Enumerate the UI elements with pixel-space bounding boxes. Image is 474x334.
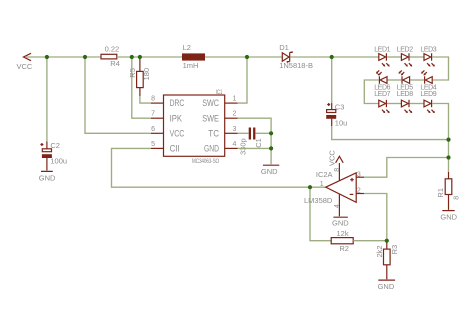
svg-text:5: 5	[151, 141, 155, 148]
pin 2 inverting	[356, 187, 364, 194]
svg-text:7: 7	[151, 111, 155, 118]
svg-text:100u: 100u	[50, 157, 67, 166]
svg-text:2k2: 2k2	[375, 245, 384, 257]
LED LED1	[374, 47, 390, 67]
svg-text:GND: GND	[378, 282, 395, 291]
junction C1 right	[269, 131, 273, 135]
supply symbol VCC (left, arrow)	[17, 53, 33, 71]
wire C3 bottom to sense node	[332, 126, 449, 140]
wire pin1 to rail	[238, 57, 248, 103]
inductor L2	[182, 43, 205, 70]
svg-text:LED1: LED1	[374, 47, 390, 54]
IC IC1 MC34063-SO box	[164, 89, 225, 165]
wire LED8-LED9	[410, 103, 425, 105]
resistor R5	[128, 58, 151, 96]
svg-text:LED7: LED7	[374, 91, 390, 98]
pin 5 CII	[151, 141, 180, 154]
wire R5 to pin8	[140, 96, 151, 103]
svg-text:1mH: 1mH	[183, 61, 199, 70]
LED LED7	[374, 91, 390, 113]
svg-text:8: 8	[151, 96, 155, 103]
svg-text:180: 180	[142, 68, 151, 81]
wire LED2-LED3	[410, 56, 425, 58]
svg-text:D1: D1	[279, 43, 289, 52]
LED LED5	[397, 70, 413, 91]
svg-text:2: 2	[357, 187, 361, 194]
LED LED4	[420, 70, 436, 91]
resistor R2	[331, 229, 353, 253]
svg-text:4: 4	[233, 141, 237, 148]
svg-text:R5: R5	[128, 68, 137, 78]
junction op-amp output node	[308, 185, 312, 189]
diode D1 (schottky)	[279, 43, 313, 70]
svg-text:0.22: 0.22	[105, 45, 120, 54]
wire LED5-LED6	[388, 79, 402, 81]
svg-text:C2: C2	[50, 141, 60, 150]
svg-text:6: 6	[151, 126, 155, 133]
wire D1 to LED1	[291, 56, 379, 58]
resistor R1	[436, 172, 461, 210]
resistor R3	[375, 242, 399, 279]
op-amp IC2A	[304, 170, 356, 205]
wire rail R4 to L2	[117, 56, 182, 58]
wire row1 right corner down to row2	[432, 57, 448, 80]
svg-text:3: 3	[233, 126, 237, 133]
svg-text:R4: R4	[110, 59, 120, 68]
svg-text:LED2: LED2	[397, 47, 413, 54]
junction to C3	[330, 55, 334, 59]
svg-text:1: 1	[320, 181, 324, 188]
wire output down to R2	[310, 187, 331, 241]
svg-text:LM358D: LM358D	[304, 196, 333, 205]
wire row2 left corner down to row3	[364, 80, 379, 104]
junction to pin1 SWC	[245, 55, 249, 59]
wire pin7 branch	[132, 57, 151, 118]
svg-text:DRC: DRC	[170, 98, 185, 108]
svg-text:MC34063-SO: MC34063-SO	[192, 158, 219, 165]
ground under R1	[440, 211, 457, 222]
svg-text:LED9: LED9	[420, 91, 436, 98]
capacitor C2	[40, 57, 67, 166]
svg-text:IC2A: IC2A	[316, 170, 333, 179]
svg-text:IPK: IPK	[170, 113, 182, 123]
junction on VCC rail to pin6	[83, 55, 87, 59]
supply symbol VCC (op-amp pin 8)	[327, 150, 343, 181]
svg-text:3: 3	[357, 172, 361, 179]
ground under R3	[378, 280, 396, 291]
svg-text:4: 4	[334, 204, 341, 208]
svg-text:L2: L2	[183, 43, 191, 52]
pin 3 noninverting	[356, 172, 364, 179]
svg-text:R2: R2	[339, 244, 349, 253]
ground op-amp pin 4	[332, 194, 349, 228]
svg-text:R3: R3	[390, 245, 399, 255]
resistor R4	[101, 45, 120, 68]
svg-text:VCC: VCC	[17, 62, 33, 71]
junction op-amp + node	[446, 155, 450, 159]
wire R2 to feedback node	[353, 240, 387, 242]
wire pin2 feedback	[364, 194, 387, 241]
wire C1 right to column	[256, 132, 272, 134]
pin 8 DRC	[151, 96, 185, 109]
wire L2 to D1	[205, 56, 282, 58]
capacitor C1	[238, 128, 263, 156]
pin 7 IPK	[151, 111, 182, 124]
svg-text:SWE: SWE	[202, 113, 219, 123]
LED LED3	[420, 47, 436, 67]
capacitor C3	[326, 57, 347, 127]
ground under pin4	[261, 165, 279, 176]
junction to R5	[138, 55, 142, 59]
svg-text:GND: GND	[261, 167, 278, 176]
svg-text:CII: CII	[170, 144, 180, 154]
svg-text:C3: C3	[335, 103, 345, 112]
pin 6 VCC	[151, 126, 185, 139]
LED LED9	[420, 91, 436, 113]
junction on VCC rail to C2	[45, 55, 49, 59]
wire VCC rail left	[25, 56, 101, 58]
pin 2 SWE	[202, 111, 237, 124]
svg-text:12k: 12k	[337, 229, 349, 238]
ground under C2	[39, 164, 56, 183]
svg-text:1: 1	[233, 96, 237, 103]
wire pin3 to sense node	[364, 158, 449, 178]
junction pin4 gnd	[269, 146, 273, 150]
svg-text:8: 8	[334, 168, 341, 172]
svg-text:1N5818-B: 1N5818-B	[279, 61, 313, 70]
svg-text:GND: GND	[440, 213, 457, 222]
svg-text:VCC: VCC	[170, 128, 185, 138]
svg-text:330p: 330p	[238, 138, 247, 155]
svg-text:GND: GND	[332, 219, 349, 228]
LED LED2	[397, 47, 413, 67]
wire pin2 to ground column	[238, 118, 272, 164]
wire row3 right to sense node	[432, 104, 448, 173]
wire LED7-LED8	[387, 103, 402, 105]
pin 4 GND	[204, 141, 238, 154]
svg-text:VCC: VCC	[327, 150, 336, 166]
pin 3 TC	[208, 126, 237, 139]
wire pin5 to op-amp output	[112, 148, 327, 187]
svg-text:TC: TC	[208, 128, 219, 138]
svg-text:GND: GND	[204, 144, 219, 154]
svg-text:C1: C1	[254, 138, 263, 148]
svg-text:IC1: IC1	[216, 89, 223, 96]
wire LED1-LED2	[387, 56, 402, 58]
svg-text:8: 8	[454, 196, 461, 200]
svg-text:GND: GND	[39, 174, 56, 183]
pin 1 SWC	[202, 96, 237, 109]
svg-text:LED3: LED3	[420, 47, 436, 54]
svg-text:10u: 10u	[335, 118, 348, 127]
wire LED4-LED5	[410, 79, 424, 81]
wire pin4 to column	[238, 147, 272, 149]
svg-text:2: 2	[233, 111, 237, 118]
svg-text:SWC: SWC	[202, 98, 219, 108]
junction to pin7	[130, 55, 134, 59]
svg-text:R1: R1	[436, 188, 445, 198]
LED LED6	[374, 70, 390, 91]
svg-text:LED8: LED8	[397, 91, 413, 98]
wire pin6 branch	[85, 57, 151, 133]
LED LED8	[397, 91, 413, 113]
junction C3 bottom node	[446, 138, 450, 142]
wire pin3 to C1	[238, 132, 249, 134]
junction feedback node	[385, 239, 389, 243]
